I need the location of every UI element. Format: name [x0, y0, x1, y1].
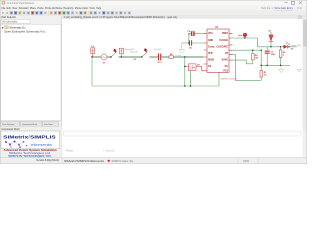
svg-text:100%: 100%	[243, 160, 250, 163]
wire comp rail	[232, 49, 261, 51]
svg-text:SIMetrix/SIMPLIS: SIMetrix/SIMPLIS	[3, 135, 56, 140]
wire left vertical	[91, 57, 93, 86]
svg-text:elements: elements	[31, 142, 52, 147]
opto U2	[188, 64, 200, 71]
wire output ground rail	[261, 64, 290, 66]
diode D1	[269, 30, 274, 46]
AC source V1	[101, 54, 107, 64]
wire VCC branch	[189, 34, 204, 43]
U1 right pin stubs	[229, 34, 232, 61]
menu bar	[0, 6, 307, 11]
capacitor C4 polarized	[188, 30, 195, 36]
svg-text:Command Shell: Command Shell	[22, 124, 37, 126]
wire VREF out	[232, 38, 257, 47]
svg-text:SYNC: SYNC	[222, 60, 229, 62]
svg-text:Comp: Comp	[208, 46, 215, 48]
bottom command shell panel	[0, 127, 62, 158]
wire bottom ground rail	[92, 85, 219, 87]
ground GND2	[278, 65, 284, 72]
schematic tab caption	[62, 16, 307, 19]
svg-text:File Edit View Simulator P: File Edit View Simulator Place Probe Pro…	[2, 7, 102, 10]
status bar	[0, 158, 307, 164]
capacitor C1	[158, 54, 163, 64]
toolbar	[0, 10, 307, 15]
wire main AC rail	[92, 56, 204, 59]
switch S2 arrow icon	[144, 48, 148, 52]
title bar	[0, 0, 307, 6]
svg-text:(F1): (F1)	[298, 7, 303, 10]
svg-text:Ready: Ready	[66, 149, 74, 152]
wire opto input stub	[185, 65, 189, 67]
U1 pin labels	[208, 33, 229, 72]
probe P1	[238, 33, 247, 38]
svg-text:SIMetrix/SIMPLIS Elements: SIMetrix/SIMPLIS Elements	[64, 160, 105, 163]
svg-text:Hys=0V: Hys=0V	[131, 52, 139, 54]
svg-text:PG: PG	[225, 66, 229, 68]
svg-text:1 object(s): 1 object(s)	[103, 149, 115, 152]
capacitor C2	[265, 47, 276, 66]
svg-text:VFB: VFB	[208, 53, 213, 55]
svg-text:CS: CS	[208, 66, 212, 68]
svg-text:100u: 100u	[271, 54, 276, 56]
svg-text:Version 8.40g (64-bit): Version 8.40g (64-bit)	[36, 159, 59, 162]
wire IC ground pin to rail	[218, 72, 220, 86]
svg-text:GND: GND	[208, 40, 213, 42]
wire opto output red net	[196, 66, 207, 70]
switch S1 arrow icon	[113, 49, 117, 53]
command shell message area	[62, 127, 303, 158]
switch S2 blade	[142, 51, 148, 57]
resistor R5	[169, 54, 173, 58]
svg-text:SIMPLIS status: idle: SIMPLIS status: idle	[112, 160, 134, 163]
ground GND3	[297, 69, 302, 72]
svg-text:Help line 1:: Help line 1:	[261, 7, 274, 10]
ground GND1	[179, 43, 185, 53]
window frame	[0, 0, 307, 164]
logo box	[1, 131, 60, 149]
svg-text:SIMPLIS_400KHZ: SIMPLIS_400KHZ	[221, 78, 238, 80]
U1 left pin stubs	[204, 34, 207, 64]
svg-text:1 self_oscillating_flyback.sxs: 1 self_oscillating_flyback.sxsch ( C:\Pr…	[64, 16, 179, 19]
wire opto emitter to rail	[189, 71, 191, 86]
LED D2	[284, 43, 302, 51]
wire output rail	[257, 46, 296, 48]
wire SW step down	[232, 55, 261, 81]
svg-text:PG2: PG2	[223, 71, 228, 73]
capacitor C3	[189, 40, 193, 49]
svg-text:Sense(SC): Sense(SC)	[125, 49, 135, 51]
svg-text:VREF: VREF	[222, 33, 229, 35]
svg-text:Command Shell Windows: Command Shell Windows	[7, 2, 35, 5]
svg-text:File View: File View	[44, 124, 53, 126]
wire R4 return loop	[232, 60, 252, 64]
wire opto branch vertical	[184, 57, 186, 86]
resistor R2	[279, 47, 286, 66]
window background	[0, 0, 307, 164]
wire FB branch	[182, 42, 204, 44]
svg-text:Ls=1u: Ls=1u	[176, 55, 182, 57]
fuse F1	[91, 46, 95, 57]
svg-text:VLOGIC: VLOGIC	[219, 40, 228, 42]
left panel	[0, 16, 62, 127]
svg-text:VCC: VCC	[208, 33, 213, 35]
svg-text:All schematics: All schematics	[2, 20, 18, 23]
resistor R4	[252, 50, 260, 64]
resistor R1	[260, 50, 267, 80]
design tree list	[1, 24, 61, 120]
op-amp controller U1	[207, 26, 229, 72]
left panel bottom tabs	[1, 121, 59, 126]
switch S1 blade	[111, 51, 117, 57]
svg-text:Power (SC): Power (SC)	[291, 45, 302, 47]
svg-text:IS/NS: IS/NS	[208, 60, 214, 62]
schematic canvas	[62, 19, 303, 131]
svg-text:Part Selector: Part Selector	[2, 16, 17, 19]
junction nodes	[91, 37, 289, 86]
svg-text:Pwr (SC): Pwr (SC)	[154, 49, 162, 51]
canvas vertical scrollbar	[303, 19, 307, 131]
svg-text:Schematic Entry: Schematic Entry	[275, 7, 294, 10]
probe X1	[119, 48, 123, 57]
svg-text:Command Shell: Command Shell	[2, 128, 20, 131]
